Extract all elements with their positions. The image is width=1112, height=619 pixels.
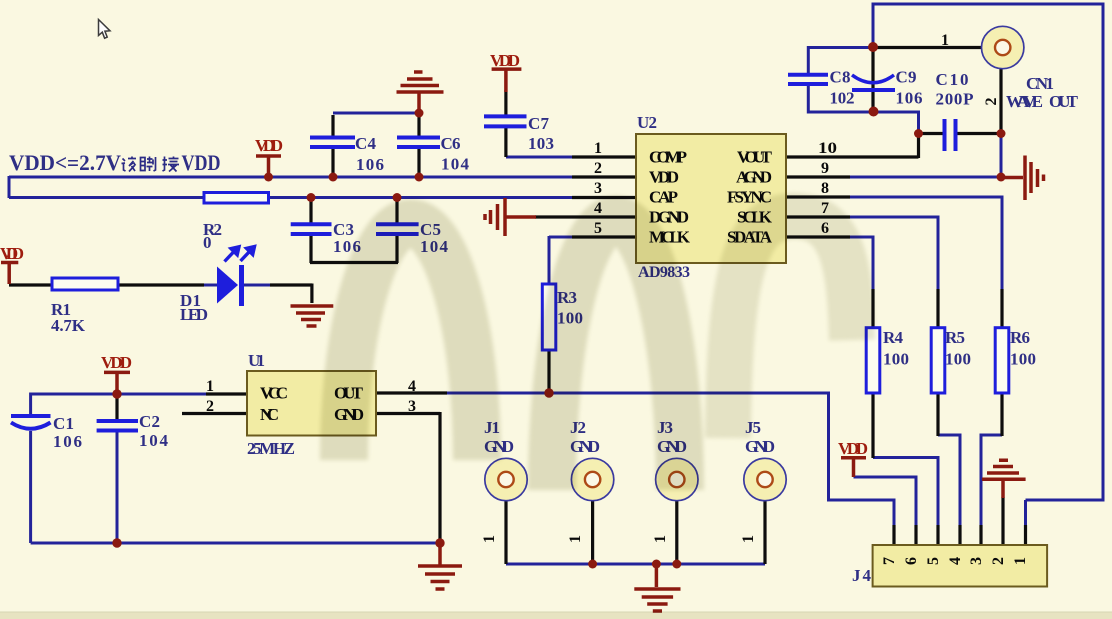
svg-text:9: 9 [821,160,829,177]
svg-text:WAVE: WAVE [1006,92,1043,111]
svg-text:5: 5 [925,557,942,565]
svg-text:U1: U1 [248,351,265,370]
svg-text:3: 3 [968,557,985,565]
svg-text:VDD<=2.7V: VDD<=2.7V [9,150,121,175]
svg-text:100: 100 [883,350,909,369]
svg-text:C9: C9 [896,68,917,87]
svg-text:VDD: VDD [255,136,283,155]
svg-text:0: 0 [203,233,212,252]
svg-text:2: 2 [594,160,602,177]
svg-text:8: 8 [821,180,829,197]
svg-text:J4: J4 [852,566,872,585]
svg-text:106: 106 [53,432,82,451]
svg-text:7: 7 [881,557,898,565]
svg-text:1: 1 [206,378,214,395]
svg-text:NC: NC [260,405,279,424]
svg-text:COMP: COMP [649,148,687,167]
svg-text:1: 1 [594,140,602,157]
svg-text:2: 2 [990,557,1007,565]
svg-text:U2: U2 [637,113,657,132]
svg-text:C2: C2 [139,412,160,431]
svg-text:10: 10 [818,140,837,157]
svg-text:VCC: VCC [260,384,288,403]
svg-text:OUT: OUT [1049,92,1079,111]
svg-text:C1: C1 [53,414,74,433]
svg-text:4: 4 [947,557,964,565]
svg-text:3: 3 [408,398,416,415]
svg-text:VDD: VDD [182,150,221,175]
svg-text:AGND: AGND [736,168,772,187]
svg-text:102: 102 [830,89,855,108]
svg-text:LED: LED [180,305,208,324]
svg-text:1: 1 [740,535,757,543]
svg-text:4: 4 [408,378,416,395]
svg-text:VDD: VDD [490,51,520,70]
svg-text:R4: R4 [883,328,904,347]
svg-text:103: 103 [528,134,554,153]
svg-text:CN1: CN1 [1026,74,1054,93]
svg-text:200P: 200P [936,90,974,109]
svg-text:25MHZ: 25MHZ [247,439,295,458]
svg-text:100: 100 [1010,350,1036,369]
svg-text:R5: R5 [945,328,965,347]
svg-text:1: 1 [481,535,498,543]
svg-text:3: 3 [594,180,602,197]
svg-text:100: 100 [945,350,971,369]
svg-text:GND: GND [745,437,775,456]
svg-text:VDD: VDD [0,244,24,263]
svg-text:6: 6 [903,557,920,565]
svg-text:106: 106 [356,155,384,174]
svg-text:104: 104 [139,431,169,450]
svg-text:C6: C6 [441,134,461,153]
svg-text:C4: C4 [355,134,377,153]
svg-text:1: 1 [941,32,949,49]
svg-text:C7: C7 [528,114,550,133]
svg-text:104: 104 [441,155,470,174]
svg-text:C8: C8 [830,68,851,87]
svg-text:VDD: VDD [649,168,679,187]
svg-text:4.7K: 4.7K [51,316,86,335]
svg-text:2: 2 [206,398,214,415]
svg-text:CAP: CAP [649,188,678,207]
svg-text:2: 2 [983,98,1000,106]
svg-text:1: 1 [1012,557,1029,565]
svg-text:VDD: VDD [838,439,868,458]
svg-text:C10: C10 [936,70,969,89]
svg-text:VOUT: VOUT [737,148,773,167]
svg-text:106: 106 [896,89,923,108]
svg-text:VDD: VDD [101,353,132,372]
svg-text:R6: R6 [1010,328,1030,347]
svg-text:1: 1 [567,535,584,543]
svg-text:1: 1 [652,535,669,543]
